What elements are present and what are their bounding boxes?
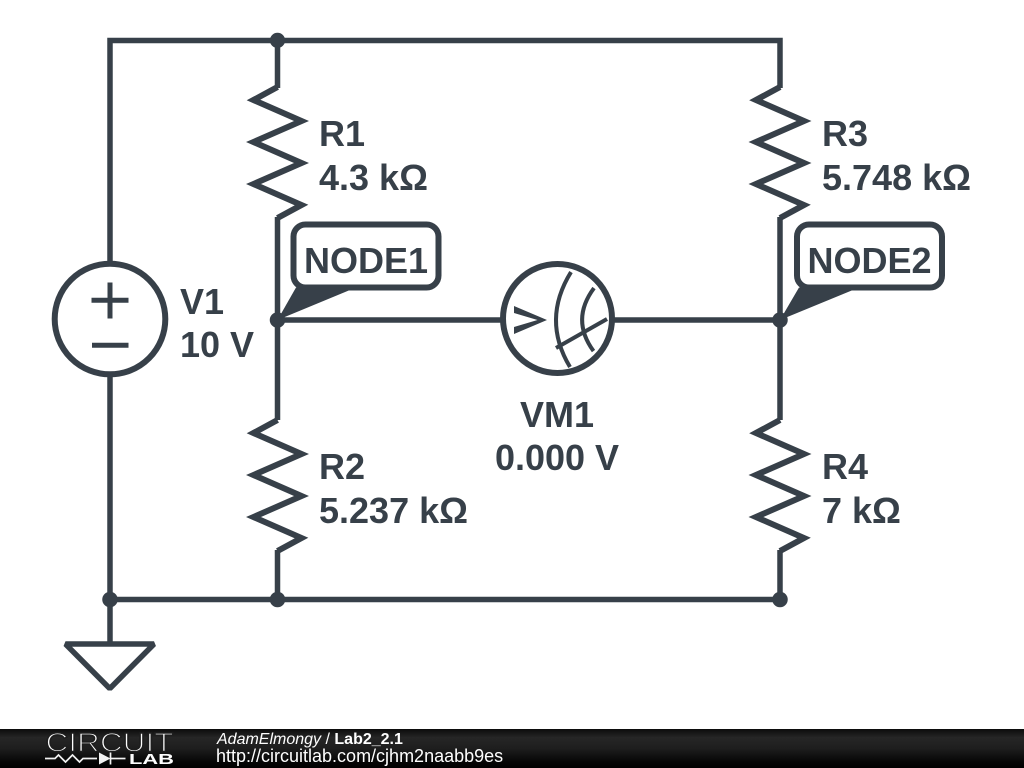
wire right vertical lower (R4 bottom lead) — [777, 550, 783, 600]
svg-text:5.748 kΩ: 5.748 kΩ — [822, 157, 971, 198]
svg-text:R4: R4 — [822, 446, 868, 487]
svg-text:5.237 kΩ: 5.237 kΩ — [319, 490, 468, 531]
wire bottom horizontal — [110, 597, 780, 603]
label R2 — [319, 446, 468, 531]
resistor R2 — [254, 420, 302, 551]
svg-text:V1: V1 — [180, 281, 224, 322]
NODE1 callout — [278, 225, 439, 321]
voltmeter VM1 — [503, 264, 612, 373]
svg-text:7 kΩ: 7 kΩ — [822, 490, 901, 531]
svg-text:10 V: 10 V — [180, 324, 254, 365]
svg-text:NODE1: NODE1 — [304, 240, 428, 281]
node NODE2 dot — [772, 312, 788, 328]
wire middle horizontal NODE1 to NODE2 — [278, 317, 781, 323]
V1 minus sign — [92, 343, 129, 348]
wire R1 top lead — [275, 41, 281, 89]
footer bar — [0, 729, 1024, 768]
resistor R3 — [756, 87, 804, 218]
svg-text:R1: R1 — [319, 113, 365, 154]
resistor R4 — [756, 420, 804, 551]
footer text — [217, 731, 403, 749]
label V1 — [180, 281, 254, 365]
svg-text:4.3 kΩ: 4.3 kΩ — [319, 157, 428, 198]
svg-text:R2: R2 — [319, 446, 365, 487]
NODE2 callout — [780, 225, 942, 321]
wire R2 bottom lead — [275, 550, 281, 600]
node dot bottom right — [772, 592, 788, 608]
label R4 — [822, 446, 901, 531]
label R1 — [319, 113, 428, 198]
node dot bottom middle — [270, 592, 286, 608]
svg-text:R3: R3 — [822, 113, 868, 154]
resistor R1 — [254, 87, 302, 218]
node dot bottom left — [102, 592, 118, 608]
svg-text:LAB: LAB — [129, 752, 174, 768]
label VM1 — [495, 394, 619, 478]
wire right vertical middle (R3 bottom lead to NODE2, R4 top lead) — [777, 217, 783, 420]
footer CircuitLab logo — [0, 729, 210, 768]
ground — [66, 600, 155, 689]
label R3 — [822, 113, 971, 198]
wire R1 bottom lead / R2 top lead — [275, 217, 281, 420]
wire top horizontal + left vertical + right top lead (outer loop) — [110, 41, 780, 600]
node NODE1 dot — [270, 312, 286, 328]
node junction dot top — [270, 33, 285, 48]
svg-text:NODE2: NODE2 — [807, 240, 931, 281]
voltage source V1 — [55, 264, 166, 375]
svg-text:0.000 V: 0.000 V — [495, 437, 619, 478]
svg-text:VM1: VM1 — [520, 394, 594, 435]
V1 plus sign — [92, 283, 129, 319]
